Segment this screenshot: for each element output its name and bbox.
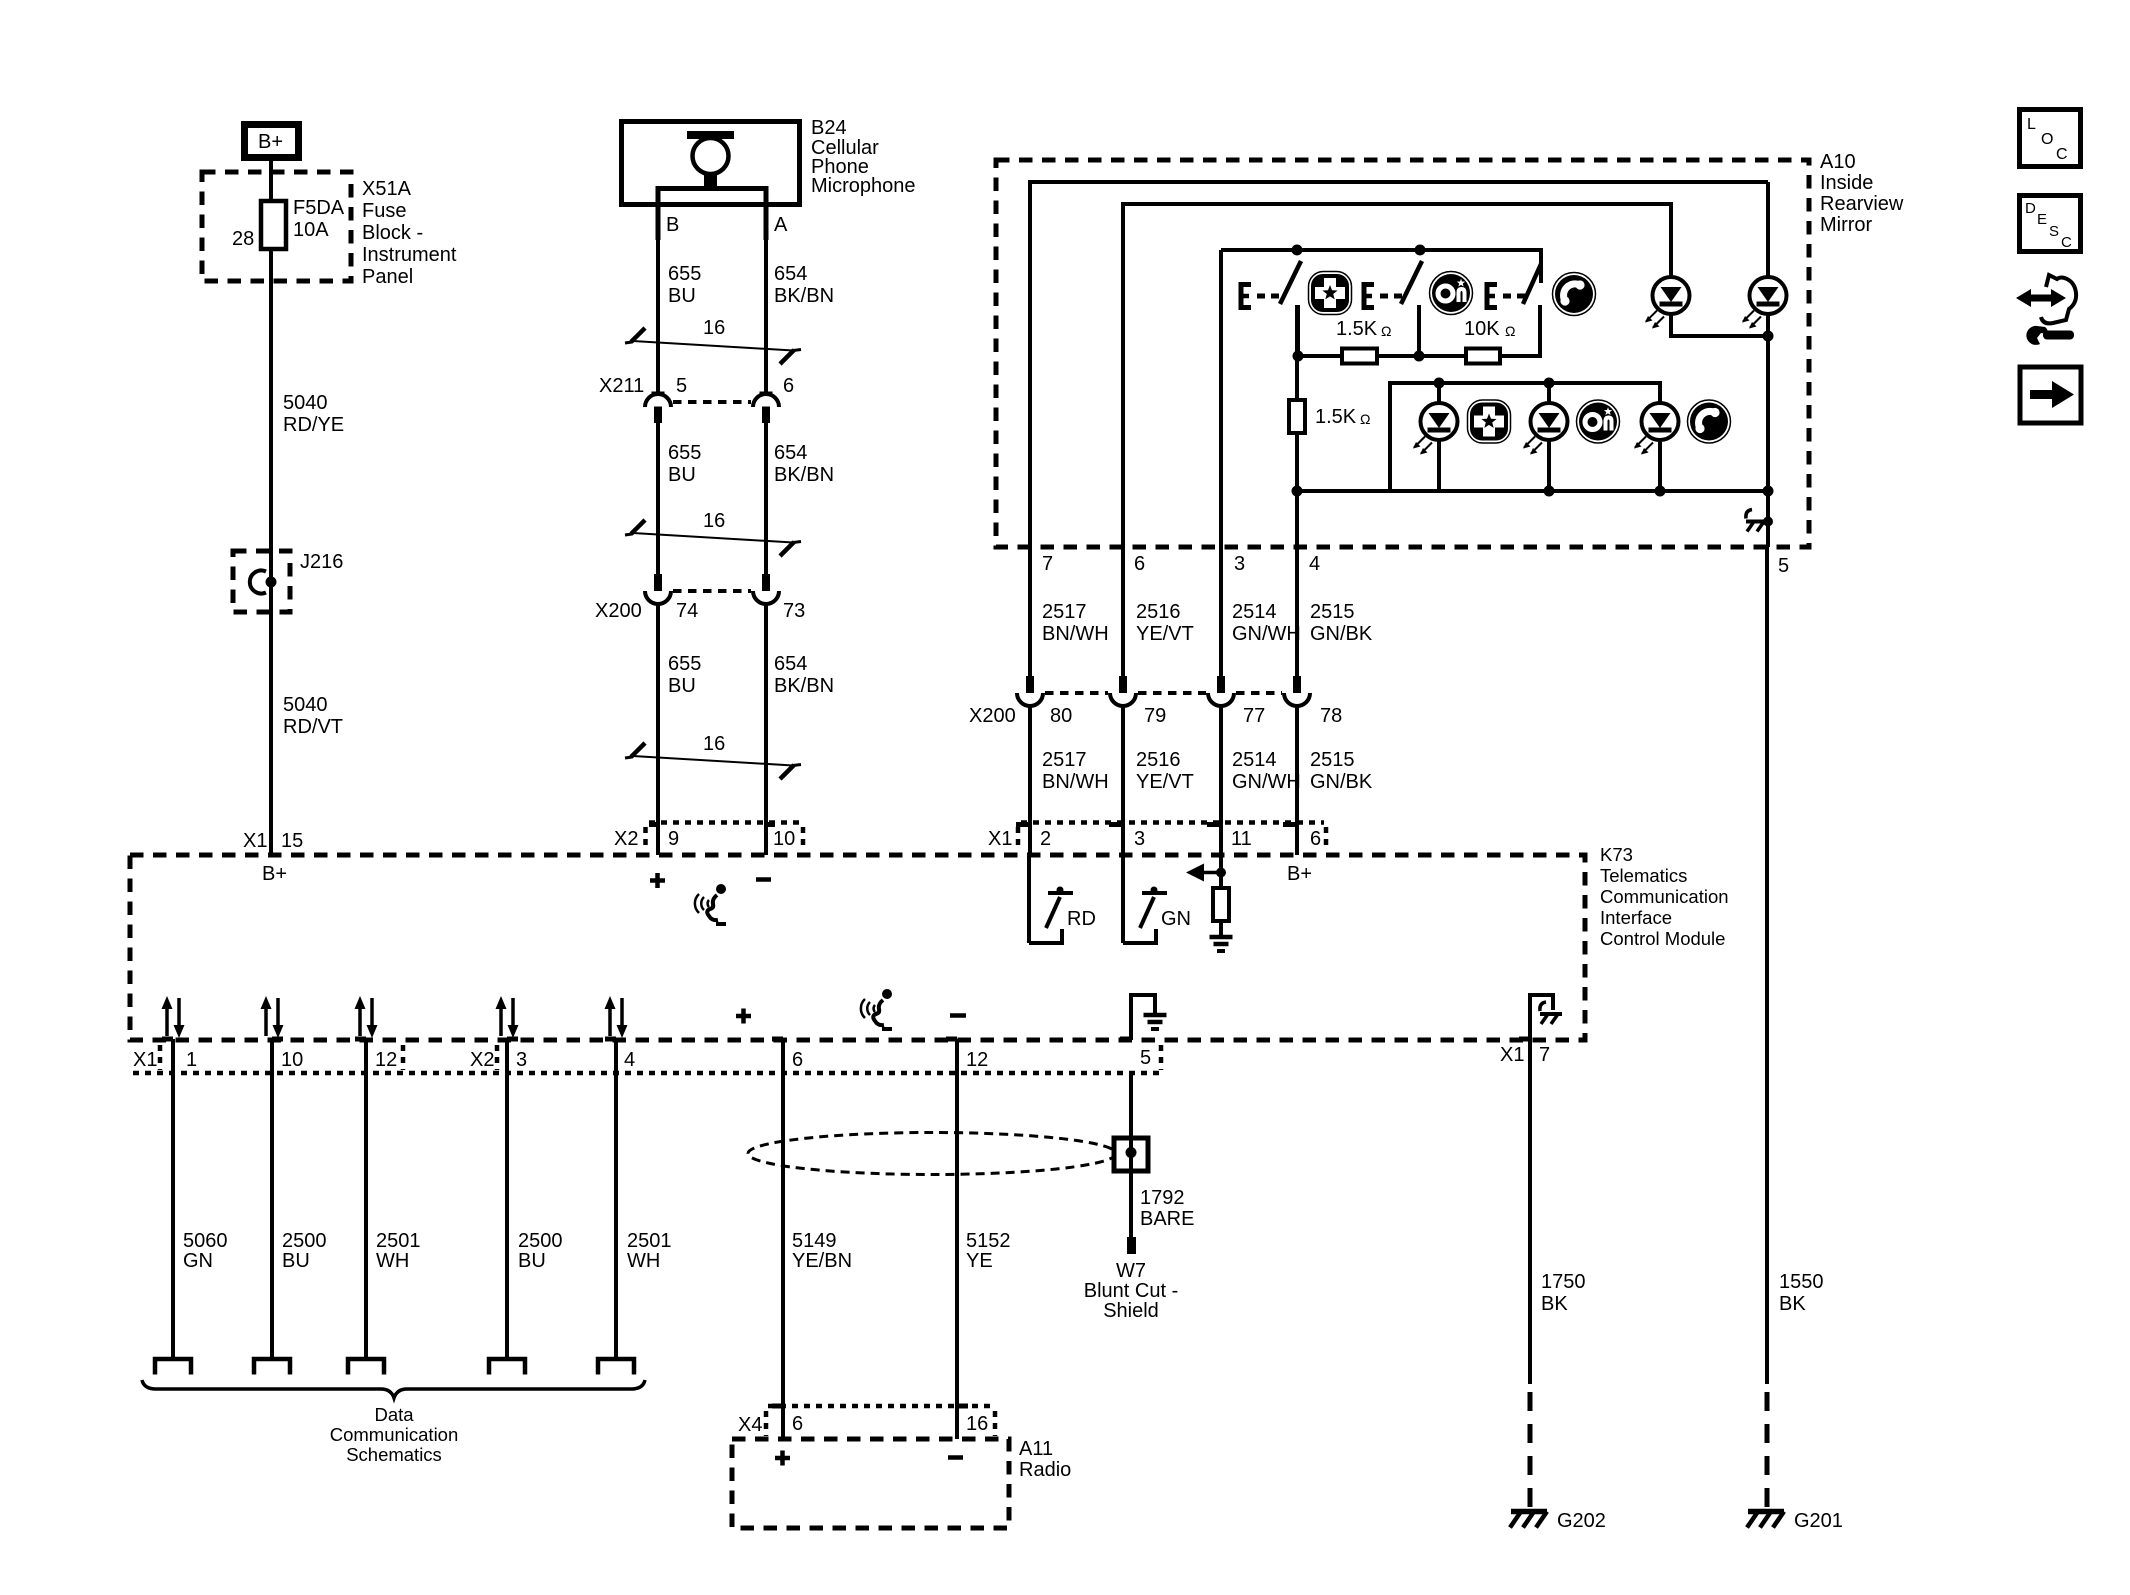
svg-text:4: 4: [1309, 553, 1320, 575]
A11 label: [1019, 1438, 1071, 1481]
svg-text:Ω: Ω: [1360, 411, 1370, 427]
svg-text:B+: B+: [262, 863, 287, 885]
fuse F5DA 10A: [261, 201, 286, 249]
wire shield drain upper: [1129, 1073, 1133, 1140]
speaker - polarity mark: [950, 1013, 966, 1018]
svg-text:YE/BN: YE/BN: [792, 1250, 852, 1272]
switch S1 (emergency button): [1241, 261, 1301, 356]
svg-text:X200: X200: [969, 705, 1016, 727]
radio + polarity mark: [775, 1451, 790, 1466]
wire 1750 dashed segment: [1528, 1392, 1533, 1508]
svg-text:6: 6: [1134, 553, 1145, 575]
svg-text:1750: 1750: [1541, 1271, 1586, 1293]
K73 X1 connector band (pins 2,3,11,6): [1016, 823, 1326, 852]
bus arrows pin 12: [355, 996, 378, 1038]
power symbol B+: [245, 125, 299, 158]
node switch rail / sw2: [1415, 245, 1426, 256]
svg-text:2501: 2501: [627, 1230, 672, 1252]
switch rail: [1221, 250, 1541, 283]
svg-text:YE/VT: YE/VT: [1136, 771, 1194, 793]
svg-text:Data: Data: [374, 1404, 414, 1425]
terminal wire 2501 X2: [598, 1359, 634, 1375]
wire 2500 BU: [272, 1039, 327, 1358]
svg-text:5040: 5040: [283, 392, 328, 414]
wire 5060 GN: [173, 1039, 228, 1358]
node return/D5: [1655, 486, 1666, 497]
svg-text:B+: B+: [1287, 863, 1312, 885]
speaker person icon: [861, 989, 892, 1029]
LOC box: [2020, 110, 2081, 167]
svg-text:10K: 10K: [1464, 318, 1500, 340]
svg-text:Blunt Cut -: Blunt Cut -: [1084, 1280, 1178, 1302]
svg-text:Control Module: Control Module: [1600, 928, 1725, 949]
svg-text:BK/BN: BK/BN: [774, 464, 834, 486]
svg-text:5040: 5040: [283, 694, 328, 716]
splice J216: [233, 551, 290, 612]
svg-text:A11: A11: [1019, 1438, 1053, 1460]
wire 5149 YE/BN: [783, 1039, 852, 1439]
svg-text:5060: 5060: [183, 1230, 228, 1252]
row2 anode rail: [1390, 383, 1660, 491]
svg-text:5: 5: [1778, 555, 1789, 577]
bottom band pin ticks: [162, 1037, 1530, 1042]
svg-text:Schematics: Schematics: [346, 1444, 442, 1465]
svg-text:16: 16: [966, 1413, 988, 1435]
connector X200 pin 80: [1017, 676, 1043, 706]
svg-text:BU: BU: [518, 1250, 546, 1272]
svg-text:X211: X211: [599, 375, 644, 397]
mirror pin number labels: [1042, 553, 1789, 577]
svg-text:79: 79: [1144, 705, 1166, 727]
svg-text:74: 74: [676, 600, 698, 622]
A11 radio dashed box: [732, 1439, 1009, 1528]
svg-text:7: 7: [1539, 1044, 1550, 1066]
wire 2514 GN/WH lower: [1219, 706, 1223, 855]
wire R1 to node B: [1377, 354, 1466, 358]
resistor ladder rail: [1298, 354, 1342, 358]
svg-text:655: 655: [668, 442, 701, 464]
svg-text:2516: 2516: [1136, 601, 1181, 623]
mic + polarity mark: [650, 873, 665, 888]
svg-text:X1: X1: [133, 1049, 157, 1071]
icon OnStar row2: [1577, 400, 1620, 443]
svg-text:WH: WH: [627, 1250, 660, 1272]
connector X200 pin 73: [753, 574, 779, 604]
svg-text:GN/BK: GN/BK: [1310, 771, 1373, 793]
resistor R1 1.5K: [1336, 318, 1391, 364]
svg-text:1: 1: [186, 1049, 197, 1071]
svg-text:2500: 2500: [518, 1230, 563, 1252]
blunt cut terminal W7: [1127, 1237, 1136, 1254]
svg-text:2517: 2517: [1042, 749, 1087, 771]
LED row2 D5: [1634, 403, 1679, 491]
svg-text:X4: X4: [738, 1414, 762, 1436]
svg-text:654: 654: [774, 653, 807, 675]
svg-text:X51A: X51A: [362, 178, 412, 200]
svg-text:A10: A10: [1820, 151, 1856, 173]
svg-text:A: A: [774, 214, 788, 236]
svg-text:S: S: [2049, 223, 2059, 240]
wire 5152 YE: [957, 1039, 1011, 1439]
LED row2 D4: [1523, 383, 1568, 491]
svg-text:BN/WH: BN/WH: [1042, 771, 1109, 793]
wire 2516 YE/VT lower: [1121, 706, 1125, 855]
svg-text:654: 654: [774, 263, 807, 285]
wire 1550 BK: [1767, 547, 1824, 1384]
bus arrows pin 1: [162, 996, 185, 1038]
A10 dashed box: [996, 160, 1809, 547]
X200 mirror mating line: [1045, 691, 1282, 695]
svg-text:Communication: Communication: [330, 1424, 459, 1445]
connector X200 pin 78: [1284, 676, 1310, 706]
microphone symbol: [658, 131, 766, 240]
indicator GN (pin 3): [1123, 855, 1191, 943]
svg-text:9: 9: [668, 828, 679, 850]
terminal wire 5060: [155, 1359, 191, 1375]
svg-text:Block -: Block -: [362, 222, 423, 244]
B24 label: [811, 117, 916, 197]
svg-text:6: 6: [783, 375, 794, 397]
wire 2517 BN/WH upper: [1028, 547, 1032, 676]
speaker + polarity mark: [736, 1009, 751, 1024]
svg-text:73: 73: [783, 600, 805, 622]
ground G202: [1510, 1510, 1606, 1532]
K73 bottom connector band: [133, 1045, 1163, 1073]
node A: [1293, 351, 1304, 362]
wire 2516 YE/VT upper: [1121, 547, 1125, 676]
wire B+ to fuse block: [269, 161, 273, 281]
terminal wire 2500 X2: [489, 1359, 525, 1375]
pin B / pin A labels: [666, 214, 788, 236]
svg-text:2516: 2516: [1136, 749, 1181, 771]
fuse value label F5DA 10A: [293, 197, 345, 241]
svg-text:655: 655: [668, 263, 701, 285]
svg-text:X1: X1: [1500, 1044, 1524, 1066]
connector X1 pin 15 labels: [243, 830, 303, 852]
svg-text:BK: BK: [1541, 1293, 1568, 1315]
svg-text:BU: BU: [668, 675, 696, 697]
node return/D4: [1544, 486, 1555, 497]
connector X200 pin 77: [1208, 676, 1234, 706]
X1 band labels: [988, 828, 1321, 850]
bus arrows pin X2-4: [605, 996, 628, 1038]
X200 mirror labels: [969, 705, 1342, 727]
svg-text:X1: X1: [988, 828, 1012, 850]
svg-text:77: 77: [1243, 705, 1265, 727]
svg-text:Interface: Interface: [1600, 907, 1672, 928]
node switch rail / sw1: [1292, 245, 1303, 256]
svg-text:5: 5: [1140, 1047, 1151, 1069]
svg-text:12: 12: [966, 1049, 988, 1071]
svg-text:Communication: Communication: [1600, 886, 1729, 907]
svg-text:2: 2: [1040, 828, 1051, 850]
svg-text:2501: 2501: [376, 1230, 421, 1252]
icon phone: [1553, 273, 1596, 316]
svg-text:78: 78: [1320, 705, 1342, 727]
svg-text:YE: YE: [966, 1250, 993, 1272]
svg-text:4: 4: [624, 1049, 635, 1071]
twisted pair marker 16 (lower): [625, 733, 801, 779]
svg-text:6: 6: [792, 1049, 803, 1071]
svg-text:80: 80: [1050, 705, 1072, 727]
X4 band labels: [738, 1413, 988, 1436]
svg-text:1.5K: 1.5K: [1336, 318, 1378, 340]
connector X211 pin 6: [753, 393, 779, 423]
switch S2 (OnStar button): [1364, 261, 1422, 356]
wire 5040 RD/VT: [269, 612, 273, 855]
svg-text:BU: BU: [668, 464, 696, 486]
LED row1 D2: [1742, 277, 1787, 336]
icon emergency cross row2: [1468, 400, 1511, 443]
twisted pair marker 16 (upper): [625, 317, 801, 364]
svg-text:5149: 5149: [792, 1230, 837, 1252]
wire mirror pin 4 / vertical resistor branch: [1295, 305, 1299, 547]
svg-text:2515: 2515: [1310, 749, 1355, 771]
X211 mating line: [673, 400, 751, 404]
wire 655 BU upper: [656, 205, 660, 393]
svg-text:GN: GN: [183, 1250, 213, 1272]
svg-text:1.5K: 1.5K: [1315, 406, 1357, 428]
svg-text:X1: X1: [243, 830, 267, 852]
svg-text:Inside: Inside: [1820, 172, 1873, 194]
svg-text:6: 6: [1310, 828, 1321, 850]
brace data communication: [142, 1380, 645, 1398]
B24 cellular phone microphone box: [622, 122, 800, 205]
wire mirror pin 7 feed: [1030, 182, 1768, 547]
terminal wire 2500: [254, 1359, 290, 1375]
DESC box: [2020, 196, 2081, 252]
bus arrows pin X2-3: [496, 996, 519, 1038]
svg-text:2515: 2515: [1310, 601, 1355, 623]
svg-text:C: C: [2061, 234, 2072, 251]
wire 655 BU middle: [656, 423, 660, 574]
X200 labels: [595, 600, 805, 622]
svg-text:11: 11: [1231, 828, 1252, 850]
wire 1792 BARE: [1131, 1171, 1194, 1237]
svg-text:X2: X2: [614, 828, 638, 850]
resistor R2 10K: [1464, 318, 1515, 364]
W7 Blunt Cut label: [1084, 1260, 1178, 1322]
svg-text:Ω: Ω: [1381, 323, 1391, 339]
svg-text:BN/WH: BN/WH: [1042, 623, 1109, 645]
svg-text:K73: K73: [1600, 844, 1633, 865]
fuse block X51A dashed box: [202, 172, 351, 281]
svg-text:10A: 10A: [293, 219, 329, 241]
node B: [1414, 351, 1425, 362]
svg-text:16: 16: [703, 317, 725, 339]
svg-text:10: 10: [773, 828, 795, 850]
indicator RD (pin 2): [1029, 855, 1096, 943]
wire mirror pin 6 feed: [1123, 204, 1671, 547]
svg-text:2500: 2500: [282, 1230, 327, 1252]
svg-text:Shield: Shield: [1103, 1300, 1159, 1322]
svg-text:Panel: Panel: [362, 266, 413, 288]
wire mirror pin 3 to switch rail: [1219, 250, 1223, 547]
svg-text:F5DA: F5DA: [293, 197, 345, 219]
wire 2501 WH: [366, 1039, 421, 1358]
internal chassis ground pin X1-7: [1530, 995, 1562, 1040]
wire 655 BU lower: [656, 604, 660, 855]
K73 label: [1600, 844, 1729, 949]
wire 654 BK/BN lower: [764, 604, 768, 855]
svg-text:GN/WH: GN/WH: [1232, 771, 1301, 793]
svg-text:Telematics: Telematics: [1600, 865, 1687, 886]
LED return rail: [1297, 489, 1768, 493]
svg-text:1550: 1550: [1779, 1271, 1824, 1293]
node rail/LED3: [1434, 378, 1445, 389]
LED row2 D3: [1413, 383, 1458, 491]
twisted pair marker 16 (middle): [625, 510, 801, 556]
svg-text:B: B: [666, 214, 679, 236]
radio - polarity mark: [948, 1455, 963, 1460]
wire 654 BK/BN upper: [764, 205, 768, 393]
switch S3 (phone button): [1487, 264, 1541, 356]
svg-text:GN/BK: GN/BK: [1310, 623, 1373, 645]
wire mirror pin 5 internal: [1766, 491, 1770, 547]
svg-text:RD/VT: RD/VT: [283, 716, 343, 738]
chassis ground inside mirror: [1746, 510, 1773, 532]
node return/pin4: [1292, 486, 1303, 497]
svg-text:2514: 2514: [1232, 601, 1277, 623]
svg-text:7: 7: [1042, 553, 1053, 575]
svg-text:Mirror: Mirror: [1820, 214, 1873, 236]
wire 2501 WH (X2): [616, 1039, 672, 1358]
svg-text:Ω: Ω: [1505, 323, 1515, 339]
svg-text:GN/WH: GN/WH: [1232, 623, 1301, 645]
svg-text:WH: WH: [376, 1250, 409, 1272]
X200 mating line: [673, 589, 751, 593]
wire 1550 dashed segment: [1765, 1392, 1770, 1508]
wire 2515 GN/BK lower: [1295, 706, 1299, 855]
wire D2 cathode down to LED return rail: [1766, 336, 1770, 491]
connector X200 pin 74: [645, 574, 671, 604]
svg-text:BK/BN: BK/BN: [774, 285, 834, 307]
node return/right leg: [1763, 486, 1774, 497]
node D1/D2 cathodes: [1763, 331, 1774, 342]
svg-text:5152: 5152: [966, 1230, 1011, 1252]
svg-text:654: 654: [774, 442, 807, 464]
wire 2500 BU (X2): [507, 1039, 563, 1358]
svg-text:Microphone: Microphone: [811, 175, 916, 197]
svg-text:G202: G202: [1557, 1510, 1606, 1532]
svg-text:12: 12: [375, 1049, 397, 1071]
bus arrows pin 10: [261, 996, 284, 1038]
resistor R4 (pin 11 pulldown): [1213, 888, 1229, 921]
earth ground pin 11: [1210, 921, 1233, 951]
wire 654 BK/BN middle: [764, 423, 768, 574]
A11 X4 connector band: [766, 1406, 995, 1436]
wire 2517 BN/WH lower: [1028, 706, 1032, 855]
Data Communication Schematics label: [330, 1404, 459, 1465]
ground G201: [1747, 1510, 1843, 1532]
svg-text:Radio: Radio: [1019, 1459, 1071, 1481]
wire 2515 GN/BK upper: [1295, 547, 1299, 676]
svg-text:X2: X2: [470, 1049, 494, 1071]
svg-text:15: 15: [281, 830, 303, 852]
connector X200 pin 79: [1110, 676, 1136, 706]
X2 band labels: [614, 828, 795, 850]
connector X211 pin 5: [645, 393, 671, 423]
K73 dashed box: [130, 855, 1585, 1040]
svg-text:O: O: [2041, 131, 2053, 148]
svg-text:BK/BN: BK/BN: [774, 675, 834, 697]
svg-text:J216: J216: [300, 551, 343, 573]
svg-text:BARE: BARE: [1140, 1208, 1194, 1230]
wire 2514 GN/WH upper: [1219, 547, 1223, 676]
svg-text:X200: X200: [595, 600, 642, 622]
svg-text:RD/YE: RD/YE: [283, 414, 344, 436]
svg-text:2517: 2517: [1042, 601, 1087, 623]
icon emergency cross: [1309, 272, 1352, 315]
X211 labels: [599, 375, 794, 397]
svg-text:D: D: [2025, 200, 2036, 217]
pin 11 input arrow: [1186, 855, 1226, 888]
bottom band labels: [133, 1044, 1550, 1071]
mic person icon: [695, 884, 726, 924]
svg-text:C: C: [2056, 146, 2068, 163]
svg-text:1792: 1792: [1140, 1187, 1185, 1209]
svg-text:RD: RD: [1067, 908, 1096, 930]
svg-text:2514: 2514: [1232, 749, 1277, 771]
mic - polarity mark: [756, 877, 771, 882]
shield termination box: [1114, 1138, 1148, 1171]
svg-text:GN: GN: [1161, 908, 1191, 930]
svg-text:L: L: [2027, 116, 2036, 133]
LED row1 D1: [1645, 277, 1768, 336]
internal ground elbow pin X2-5: [1131, 995, 1167, 1040]
svg-text:655: 655: [668, 653, 701, 675]
svg-text:BU: BU: [668, 285, 696, 307]
svg-text:G201: G201: [1794, 1510, 1843, 1532]
svg-text:Rearview: Rearview: [1820, 193, 1904, 215]
wire LED2 row1 anode: [1766, 182, 1770, 277]
wire 5040 RD/YE: [269, 281, 273, 551]
shield ellipse: [748, 1133, 1116, 1175]
icon phone row2: [1688, 400, 1731, 443]
A10 label: [1820, 151, 1904, 236]
svg-text:YE/VT: YE/VT: [1136, 623, 1194, 645]
svg-text:Instrument: Instrument: [362, 244, 457, 266]
resistor R3 1.5K vertical: [1289, 400, 1370, 433]
svg-text:10: 10: [281, 1049, 303, 1071]
icon OnStar: [1430, 272, 1473, 315]
X51A Fuse Block label: [362, 178, 457, 288]
wire 1750 BK: [1530, 1040, 1586, 1384]
svg-text:3: 3: [1134, 828, 1145, 850]
svg-text:E: E: [2037, 211, 2047, 228]
svg-text:BK: BK: [1779, 1293, 1806, 1315]
service icon (arrow and wrench): [2016, 275, 2076, 345]
svg-text:16: 16: [703, 510, 725, 532]
next-page arrow box: [2020, 367, 2081, 423]
svg-text:3: 3: [1234, 553, 1245, 575]
svg-text:Fuse: Fuse: [362, 200, 406, 222]
svg-text:3: 3: [516, 1049, 527, 1071]
svg-text:W7: W7: [1116, 1260, 1146, 1282]
node rail/LED4: [1544, 378, 1555, 389]
K73 X2 connector band (pins 9,10): [646, 823, 804, 852]
svg-text:16: 16: [703, 733, 725, 755]
svg-text:5: 5: [676, 375, 687, 397]
svg-text:BU: BU: [282, 1250, 310, 1272]
svg-text:6: 6: [792, 1413, 803, 1435]
svg-text:B+: B+: [258, 131, 283, 153]
svg-text:28: 28: [232, 228, 254, 250]
terminal wire 2501: [348, 1359, 384, 1375]
svg-text:B24: B24: [811, 117, 847, 139]
